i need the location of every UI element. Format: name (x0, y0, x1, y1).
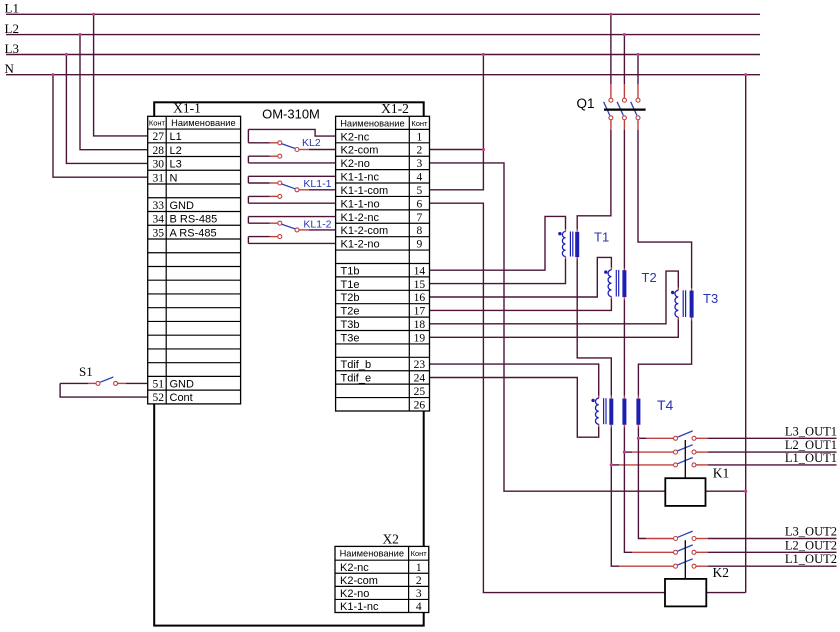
svg-text:X1-2: X1-2 (381, 101, 409, 116)
svg-text:30: 30 (153, 159, 165, 171)
svg-text:51: 51 (153, 378, 165, 390)
svg-text:8: 8 (417, 225, 423, 237)
wire L3_OUT1 (696, 437, 836, 439)
svg-text:31: 31 (153, 172, 165, 184)
wire K2-no to contactor K1 coil (430, 163, 666, 491)
wire L2_OUT2 (696, 551, 836, 553)
junction L1 phase to K1 contact (610, 463, 613, 466)
svg-text:T3e: T3e (341, 332, 360, 344)
svg-text:Q1: Q1 (577, 96, 595, 111)
wire Q1 pole1 to T1 secondary (610, 120, 612, 130)
svg-text:K1-2-nc: K1-2-nc (341, 212, 380, 224)
svg-text:L2: L2 (170, 145, 182, 157)
svg-text:X1-1: X1-1 (173, 101, 201, 116)
svg-text:KL1-1: KL1-1 (303, 178, 331, 190)
wire T4 bar2 down to K1/K2 L2 contacts (623, 425, 625, 428)
wire X1-2 pin 19 T3e to T3 primary (430, 320, 679, 338)
svg-text:Tdif_b: Tdif_b (341, 359, 372, 371)
wire N to X1-1 pin 31 (53, 75, 148, 178)
switch S1 (96, 377, 118, 385)
svg-text:K2-com: K2-com (341, 145, 379, 157)
wire T1 secondary to T4 bar1 (576, 257, 578, 260)
wire X1-2 pin 24 Tdif_e to T4 primary (430, 378, 599, 438)
wire L3 tap to K2-com and K1-1-com (482, 55, 484, 150)
svg-text:28: 28 (153, 145, 165, 157)
svg-text:35: 35 (153, 227, 165, 239)
svg-text:T3: T3 (703, 291, 718, 306)
wire L1_OUT1 (696, 464, 836, 466)
transformer T4 differential transformer (591, 397, 673, 425)
wire T3 secondary to T4 bar3 (691, 318, 693, 321)
wire X1-2 pin 15 T1e to T1 primary (430, 259, 566, 284)
wire L2 to X1-1 pin 28 (80, 35, 148, 150)
junction K2-com row (482, 148, 485, 151)
svg-text:34: 34 (153, 214, 165, 226)
breaker Q1 pole3 (631, 98, 640, 120)
device OM-310M outline box (154, 102, 424, 625)
breaker Q1 pole1 (604, 98, 613, 120)
contactor K2 contact L3 (674, 531, 697, 540)
wire L3 drop to Q1 pole3 (637, 55, 639, 85)
svg-text:16: 16 (414, 292, 426, 304)
svg-text:T1: T1 (594, 230, 609, 245)
svg-text:N: N (5, 61, 15, 76)
svg-text:Наименование: Наименование (340, 549, 404, 559)
svg-text:14: 14 (414, 265, 426, 277)
svg-text:4: 4 (417, 172, 423, 184)
svg-text:K1: K1 (713, 465, 730, 480)
contactor K2 mechanical link (684, 540, 686, 579)
svg-text:K2-no: K2-no (340, 588, 369, 600)
svg-text:A RS-485: A RS-485 (170, 227, 217, 239)
junction L3/Q1 (636, 53, 639, 56)
svg-text:7: 7 (417, 212, 423, 224)
junction L3 phase to K1 contact (637, 437, 640, 440)
contactor K1 coil (665, 478, 705, 506)
svg-text:Tdif_e: Tdif_e (341, 373, 372, 385)
svg-text:19: 19 (414, 332, 426, 344)
wire T4 bar1 down to K1/K2 L1 contacts (610, 425, 612, 428)
wire L2_OUT1 (696, 451, 836, 453)
wire L3 rail (6, 54, 760, 56)
svg-text:GND: GND (170, 378, 195, 390)
svg-text:B RS-485: B RS-485 (170, 214, 218, 226)
wire L1_OUT2 (696, 565, 836, 567)
wire L1 drop to Q1 pole1 (610, 14, 612, 84)
svg-text:23: 23 (414, 359, 426, 371)
terminal block X1-2 table (336, 116, 430, 411)
wire contactor K1 coil to N (706, 490, 746, 492)
svg-text:T4: T4 (657, 397, 674, 413)
svg-text:L3_OUT2: L3_OUT2 (785, 525, 837, 539)
wire X1-2 pin 18 T3b to T3 primary (430, 271, 679, 324)
transformer T2 current transformer (604, 270, 657, 297)
svg-text:1: 1 (417, 131, 423, 143)
contactor K1 contact L3 (674, 431, 697, 440)
svg-text:K2-com: K2-com (340, 575, 378, 587)
svg-text:T1e: T1e (341, 279, 360, 291)
svg-text:L1_OUT1: L1_OUT1 (785, 451, 837, 465)
contactor K2 contact L2 (674, 545, 697, 554)
svg-text:S1: S1 (79, 364, 93, 379)
relay contact KL2 (248, 129, 335, 163)
junction L1/Q1 (609, 13, 612, 16)
wire L2 rail (6, 34, 760, 36)
wire X1-2 pin 23 Tdif_b to T4 primary (430, 364, 599, 396)
junction L3/X1-1 drop (65, 53, 68, 56)
svg-text:T3b: T3b (341, 319, 360, 331)
svg-text:Наименование: Наименование (171, 118, 235, 128)
svg-text:2: 2 (416, 575, 422, 587)
svg-text:K1-2-com: K1-2-com (341, 225, 389, 237)
svg-text:GND: GND (170, 200, 195, 212)
svg-text:Конт: Конт (411, 119, 428, 128)
relay contact KL1-1 (248, 176, 335, 203)
svg-text:9: 9 (417, 239, 423, 251)
svg-text:27: 27 (153, 131, 165, 143)
svg-text:K2-nc: K2-nc (341, 131, 370, 143)
svg-text:15: 15 (414, 279, 426, 291)
svg-text:L3_OUT1: L3_OUT1 (785, 424, 837, 438)
svg-text:Конт: Конт (411, 549, 428, 558)
svg-text:17: 17 (414, 306, 426, 318)
svg-text:L2: L2 (5, 21, 19, 36)
svg-text:K2: K2 (713, 565, 730, 580)
svg-text:KL1-2: KL1-2 (303, 219, 331, 231)
svg-text:3: 3 (416, 588, 422, 600)
wire N rail (6, 74, 760, 76)
svg-text:K1-1-no: K1-1-no (341, 198, 380, 210)
contactor K2 contact L1 (674, 559, 697, 568)
contactor K1 mechanical link (684, 440, 686, 478)
wire L1 rail (6, 13, 760, 15)
wire N drop to contactor coils (745, 75, 747, 593)
wire K1-1-no to contactor K2 coil (430, 203, 666, 592)
breaker Q1 pole2 (617, 98, 626, 120)
svg-text:24: 24 (414, 373, 426, 385)
wire L2 drop to Q1 pole2 (623, 35, 625, 84)
wire Q1 pole2 to T2 secondary (623, 120, 625, 130)
wire L1 to X1-1 pin 27 (94, 14, 148, 136)
svg-text:L3: L3 (170, 159, 182, 171)
wire to S1 left terminal (60, 382, 88, 384)
svg-text:K1-1-com: K1-1-com (341, 185, 389, 197)
junction L2/X1-1 drop (78, 33, 81, 36)
svg-text:K2-nc: K2-nc (340, 562, 369, 574)
wire T2 secondary to T4 bar2 (623, 297, 625, 300)
svg-text:K1-1-nc: K1-1-nc (341, 172, 380, 184)
junction L2 phase to K1 contact (623, 451, 626, 454)
terminal block X1-1 table (148, 116, 241, 404)
wire S1 right terminal to X1-1 pin 51 (118, 382, 126, 384)
wire X1-2 pin 17 T2e to T2 primary (430, 299, 612, 310)
svg-text:2: 2 (417, 145, 423, 157)
svg-text:Cont: Cont (170, 392, 193, 404)
svg-text:KL2: KL2 (302, 137, 321, 149)
breaker Q1 trip bar (604, 108, 646, 110)
svg-text:52: 52 (153, 392, 165, 404)
svg-text:L1_OUT2: L1_OUT2 (785, 552, 837, 566)
wire T4 bar3 down to K1/K2 L3 contacts (637, 425, 639, 428)
contactor K2 coil (665, 579, 706, 607)
svg-text:L1: L1 (170, 131, 182, 143)
svg-text:5: 5 (417, 185, 423, 197)
svg-text:T2: T2 (642, 270, 657, 285)
wire contactor K2 coil to N (706, 592, 745, 594)
wire X1-2 pin 14 T1b to T1 primary (430, 216, 566, 270)
contactor K1 contact L2 (674, 445, 697, 454)
svg-text:N: N (170, 172, 178, 184)
junction N/X1-1 drop (51, 73, 54, 76)
svg-text:Конт: Конт (149, 119, 166, 128)
junction N vertical at K1 coil (744, 490, 747, 493)
wire X1-2 pin 16 T2b to T2 primary (430, 257, 612, 297)
junction N/coil return (744, 73, 747, 76)
svg-text:3: 3 (417, 158, 423, 170)
wire S1 loop to X1-1 pin 52 (60, 383, 148, 397)
wire Q1 pole3 to T3 secondary (637, 120, 639, 130)
svg-text:T2e: T2e (341, 306, 360, 318)
wire L3_OUT2 (696, 538, 836, 540)
svg-text:K2-no: K2-no (341, 158, 370, 170)
svg-text:X2: X2 (382, 532, 399, 547)
svg-text:1: 1 (416, 562, 422, 574)
junction L3/K2-com tap (482, 53, 485, 56)
transformer T1 current transformer (558, 230, 609, 258)
junction L2/Q1 (623, 33, 626, 36)
svg-text:T2b: T2b (341, 292, 360, 304)
contactor K1 contact L1 (674, 458, 697, 467)
svg-text:Наименование: Наименование (340, 118, 404, 128)
svg-text:6: 6 (417, 198, 423, 210)
svg-text:K1-1-nc: K1-1-nc (340, 601, 379, 613)
svg-text:ОМ-310М: ОМ-310М (262, 106, 320, 121)
svg-text:T1b: T1b (341, 265, 360, 277)
wire L3 to X1-1 pin 30 (66, 55, 147, 164)
transformer T3 current transformer (671, 290, 718, 317)
svg-text:26: 26 (414, 399, 426, 411)
svg-text:L1: L1 (5, 1, 19, 16)
terminal block X2 table (335, 546, 429, 613)
svg-text:18: 18 (414, 319, 426, 331)
svg-text:4: 4 (416, 601, 422, 613)
relay contact KL1-2 (248, 217, 335, 244)
svg-text:33: 33 (153, 200, 165, 212)
junction L1/X1-1 drop (92, 13, 95, 16)
svg-text:L2_OUT2: L2_OUT2 (785, 538, 837, 552)
svg-text:K1-2-no: K1-2-no (341, 239, 380, 251)
svg-text:25: 25 (414, 386, 426, 398)
svg-text:L3: L3 (5, 41, 19, 56)
